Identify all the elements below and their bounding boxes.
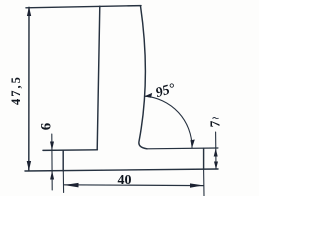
dimension line 7 [215,132,217,169]
svg-text:7: 7 [208,120,223,127]
arrowhead 47,5 top [27,7,31,16]
stem left edge [97,6,100,149]
stray tilde mark above 7 [213,117,219,118]
dimension line 40 [64,184,204,187]
base right edge [203,148,205,169]
svg-text:47,5: 47,5 [9,75,23,105]
arrowhead 40 left [64,183,79,188]
arrowhead 6 lower (points up to base bottom) [50,171,54,180]
base bottom line with extensions [25,169,218,171]
top cap line with 47,5 extension [26,6,141,8]
extension line right for 40 [203,169,205,196]
arrowhead 47,5 bottom [27,161,31,171]
stem right slanted edge [139,6,147,149]
base left edge [62,150,64,171]
extension line left for 40 [62,171,64,193]
svg-text:6: 6 [39,122,55,130]
angle arc 95 [145,96,192,147]
svg-text:40: 40 [118,173,132,188]
arrowhead 7 top (points up to flange top) [214,148,218,156]
flange top right segment with 7 extension [147,147,218,150]
svg-text:95°: 95° [154,81,177,101]
arrowhead arc upper end (points to slant) [144,93,152,98]
flange top left segment with 6 extension [43,149,97,152]
arrowhead arc lower end (points down to flange top) [190,140,194,149]
dimension line 47,5 [28,7,30,170]
dimension line 6 [51,134,53,190]
arrowhead 40 right [190,183,203,187]
arrowhead 7 bottom (points down to base bottom) [214,162,218,170]
arrowhead 6 upper (points down to flange top) [50,142,54,151]
